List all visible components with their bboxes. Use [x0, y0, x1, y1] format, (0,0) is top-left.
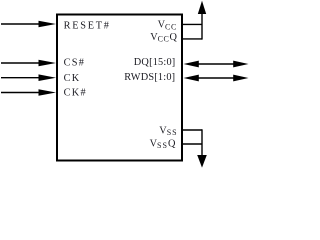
svg-text:VSS: VSS	[159, 125, 177, 137]
svg-text:VSSQ: VSSQ	[150, 138, 176, 150]
svg-text:RESET#: RESET#	[64, 20, 111, 31]
svg-text:VCCQ: VCCQ	[150, 32, 177, 44]
svg-text:CK#: CK#	[64, 88, 87, 99]
svg-text:CK: CK	[64, 73, 81, 84]
svg-text:DQ[15:0]: DQ[15:0]	[134, 57, 176, 68]
svg-text:RWDS[1:0]: RWDS[1:0]	[124, 72, 175, 83]
svg-text:VCC: VCC	[158, 20, 177, 32]
svg-text:CS#: CS#	[64, 58, 86, 69]
